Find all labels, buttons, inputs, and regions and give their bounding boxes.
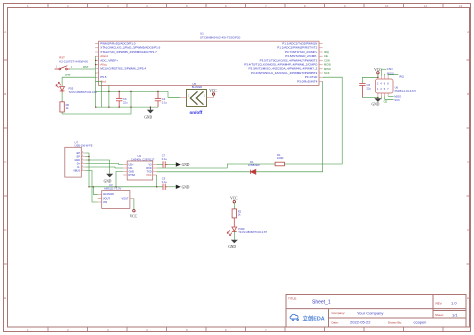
MCU U1 STC8H8K64U2-45I-TSSOP20 xyxy=(99,32,320,86)
svg-text:VBUS: VBUS xyxy=(73,169,80,172)
svg-text:TITLE:: TITLE: xyxy=(288,296,297,300)
resistor R2 1k xyxy=(232,209,236,218)
svg-text:Your Company: Your Company xyxy=(357,310,383,315)
USB connector U7 USB-106-W-FE xyxy=(65,140,93,177)
ground symbol PWR xyxy=(228,240,238,250)
wire LED anode xyxy=(61,77,63,86)
svg-text:K2-1107ST-A4SW-06: K2-1107ST-A4SW-06 xyxy=(59,60,88,64)
svg-text:MOSI: MOSI xyxy=(324,63,331,67)
gnd net flag 1 xyxy=(176,162,190,167)
svg-text:REV:: REV: xyxy=(436,301,443,305)
title block xyxy=(286,295,466,328)
svg-text:E: E xyxy=(4,296,6,300)
svg-text:VOUT: VOUT xyxy=(122,198,129,201)
svg-text:100R: 100R xyxy=(277,156,283,160)
wire VCC feed row xyxy=(96,91,181,97)
svg-text:MCLKO/RST/SS_3/PWM6_2/P5.4: MCLKO/RST/SS_3/PWM6_2/P5.4 xyxy=(100,67,146,71)
svg-text:VCC: VCC xyxy=(209,89,217,93)
VCC symbol U3 xyxy=(130,210,138,219)
title block texts xyxy=(288,296,444,324)
wire VCC pin drop xyxy=(156,175,158,187)
frame column ticks top xyxy=(48,4,443,8)
svg-text:VCC: VCC xyxy=(146,174,151,177)
svg-text:B: B xyxy=(467,92,469,96)
svg-text:on/off: on/off xyxy=(190,110,203,115)
wire gnd rail1 xyxy=(96,106,158,108)
frame row ticks left xyxy=(4,60,8,264)
svg-text:22u: 22u xyxy=(367,86,372,90)
svg-text:GND: GND xyxy=(372,102,380,106)
ground symbol NRF xyxy=(372,96,382,106)
svg-text:Date:: Date: xyxy=(332,320,339,324)
svg-text:1/1: 1/1 xyxy=(452,312,458,317)
junction dots mid xyxy=(93,186,158,187)
wire R2 to LED PWR xyxy=(233,218,235,227)
wire MISO nrf xyxy=(388,95,394,97)
svg-text:CSN: CSN xyxy=(324,58,330,62)
wire CSN h xyxy=(381,68,386,70)
svg-text:U6: U6 xyxy=(395,85,399,89)
svg-text:A: A xyxy=(4,30,6,34)
svg-text:ADJ/GND: ADJ/GND xyxy=(103,193,114,196)
buzzer U5 xyxy=(180,82,213,115)
junction dots left area xyxy=(95,60,158,108)
NRF24 header U6 PM254-2-04-Z-8.5 xyxy=(376,76,417,97)
svg-text:1.0: 1.0 xyxy=(451,301,457,306)
U1 left pin names xyxy=(100,42,160,84)
svg-text:MISO: MISO xyxy=(394,94,401,98)
wire SCK nrf xyxy=(385,96,394,99)
svg-text:Sheet:: Sheet: xyxy=(435,313,444,317)
CH340N U2 xyxy=(123,154,157,180)
svg-text:A: A xyxy=(467,30,469,34)
wire C8 to gnd xyxy=(362,97,378,99)
svg-text:0.1u: 0.1u xyxy=(162,180,168,184)
wire TXD to D1 xyxy=(157,171,250,173)
wire under IC xyxy=(108,85,110,107)
svg-text:RST: RST xyxy=(83,65,89,69)
wire vcc rail xyxy=(89,186,163,188)
svg-text:1N5819W: 1N5819W xyxy=(248,163,260,167)
svg-text:VIN: VIN xyxy=(103,201,107,204)
wire EP1 xyxy=(85,153,89,187)
ground symbol usb xyxy=(104,174,114,184)
junction dots usb xyxy=(88,156,89,188)
wire RXD to R1 xyxy=(157,164,275,168)
svg-text:TZ-P2-0805WTC02-0.8T: TZ-P2-0805WTC02-0.8T xyxy=(238,230,267,234)
capacitor C6 22u xyxy=(116,91,122,107)
capacitor C8 22u xyxy=(359,83,365,97)
svg-text:AMS1117-3.3V: AMS1117-3.3V xyxy=(104,187,121,191)
switch RST K2-1107ST xyxy=(55,56,89,70)
gnd net flag 2 xyxy=(176,185,190,190)
wire CE xyxy=(380,96,382,99)
wire LED cathode to R6 xyxy=(61,93,63,102)
svg-text:2022-05-22: 2022-05-22 xyxy=(350,320,371,325)
wire C5 to gnd flag xyxy=(168,186,176,188)
svg-text:PTT: PTT xyxy=(66,73,71,77)
ground symbol left xyxy=(144,107,154,120)
frame row ticks right xyxy=(467,60,471,264)
svg-text:CSN: CSN xyxy=(387,67,393,71)
svg-text:TZ-P2-0805WTC02-0.8T: TZ-P2-0805WTC02-0.8T xyxy=(69,90,98,94)
svg-text:VCC: VCC xyxy=(130,215,138,219)
wire Gnd pin drop xyxy=(96,81,102,107)
svg-text:CE: CE xyxy=(384,100,388,104)
svg-text:22u: 22u xyxy=(123,100,128,104)
svg-text:E: E xyxy=(467,296,469,300)
svg-text:GND: GND xyxy=(228,245,236,249)
svg-text:IRQ: IRQ xyxy=(324,50,329,54)
svg-text:MISO: MISO xyxy=(324,67,331,71)
svg-text:USB-106-W-FE: USB-106-W-FE xyxy=(75,144,93,148)
wire D+ xyxy=(85,164,123,165)
svg-text:U3: U3 xyxy=(109,183,113,187)
svg-text:立创EDA: 立创EDA xyxy=(303,314,325,322)
svg-text:CH340N_C2976127: CH340N_C2976127 xyxy=(131,157,155,161)
svg-text:Company:: Company: xyxy=(332,311,346,315)
LED P55 TZ-P2-0805WTC02-0.8T xyxy=(56,82,65,92)
svg-text:XTALI/TxD_3/PWM5_2/PWM6/ADC7/P: XTALI/TxD_3/PWM5_2/PWM6/ADC7/P1.7 xyxy=(100,50,157,54)
svg-text:0.1u: 0.1u xyxy=(162,100,168,104)
svg-text:GND: GND xyxy=(182,185,190,189)
wire USB gnd drop xyxy=(109,160,111,174)
svg-text:RTS#: RTS# xyxy=(129,174,136,177)
wire rail2 xyxy=(62,91,131,114)
svg-text:GND: GND xyxy=(182,163,190,167)
svg-text:GND: GND xyxy=(144,116,152,120)
svg-text:Drawn By:: Drawn By: xyxy=(388,320,402,324)
svg-text:STC8H8K64U2-45I-TSSOP20: STC8H8K64U2-45I-TSSOP20 xyxy=(200,36,241,40)
wire C8 loop xyxy=(362,77,378,83)
wire D- xyxy=(85,167,123,168)
wire ADJ to rail xyxy=(93,187,97,195)
LED PWR TZ-P2-0805WTC02-0.8T xyxy=(227,227,237,236)
VCC symbol buzzer xyxy=(209,89,217,97)
svg-text:12: 12 xyxy=(459,4,463,8)
svg-text:SCK: SCK xyxy=(324,71,330,75)
VCC symbol PWR xyxy=(230,196,238,209)
wire PTT net P5.5 xyxy=(62,76,95,78)
wire MOSI xyxy=(384,74,386,76)
capacitor C4 0.1u xyxy=(155,91,161,107)
capacitor C5 0.1u xyxy=(163,184,168,190)
wire U2 gnd to rail xyxy=(116,172,123,187)
wire D1 to P3.0 xyxy=(256,81,323,171)
wire R1 to P3.1 xyxy=(285,77,343,164)
wire AGnd column xyxy=(95,56,97,107)
wire USB GND xyxy=(85,159,109,161)
U1 right pin stubs xyxy=(319,44,323,82)
svg-text:10: 10 xyxy=(385,4,389,8)
wire VOUT to VCC xyxy=(133,199,135,210)
svg-text:ccapen: ccapen xyxy=(414,320,427,325)
U1 right pin names xyxy=(244,42,318,84)
wire LED to GND xyxy=(233,231,235,239)
svg-text:P3.0/RxD/INT4: P3.0/RxD/INT4 xyxy=(297,79,318,83)
svg-text:IRQ: IRQ xyxy=(399,74,404,78)
svg-text:BUZZER: BUZZER xyxy=(192,85,203,89)
wire R6 bottom to rail2 xyxy=(61,112,63,114)
wire EP2 xyxy=(85,156,89,158)
frame column ticks bottom xyxy=(48,327,443,332)
junction dots NRF xyxy=(377,77,378,98)
regulator U3 AMS1117-3.3V xyxy=(98,183,134,209)
svg-text:11: 11 xyxy=(424,4,427,8)
svg-text:Sheet_1: Sheet_1 xyxy=(312,300,331,306)
svg-text:SCK: SCK xyxy=(394,98,400,102)
svg-text:VCC: VCC xyxy=(230,196,238,200)
wire IRQ xyxy=(388,74,398,77)
resistor R1 100R xyxy=(275,162,284,166)
diode D1 1N5819W xyxy=(250,169,255,174)
JLCEDA logo xyxy=(290,314,325,322)
VCC symbol NRF xyxy=(374,68,382,77)
capacitor C7 0.1u xyxy=(163,161,168,167)
wire VBUS to VIN xyxy=(85,171,97,203)
svg-text:0.1u: 0.1u xyxy=(162,157,168,161)
wire V3 to C7 xyxy=(157,164,163,166)
resistor R6 1k xyxy=(60,102,64,112)
svg-text:PM254-2-04-Z-8.5: PM254-2-04-Z-8.5 xyxy=(395,89,417,93)
svg-text:CE: CE xyxy=(324,54,328,58)
wire CSN xyxy=(380,69,382,75)
wire C7 to gnd flag xyxy=(168,164,176,166)
svg-text:B: B xyxy=(4,92,6,96)
U1 left pin stubs xyxy=(95,44,99,82)
wire RST net xyxy=(70,68,95,70)
